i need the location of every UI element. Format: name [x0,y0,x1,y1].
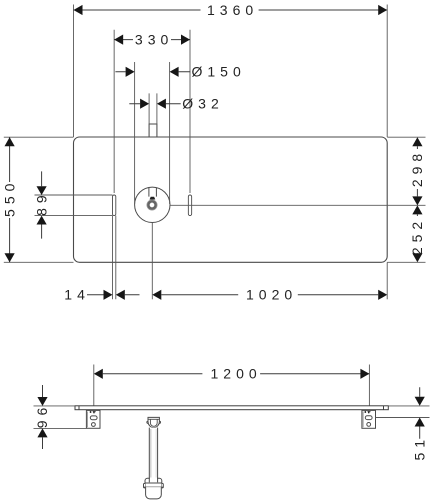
svg-text:Ø150: Ø150 [192,64,246,80]
svg-text:96: 96 [34,403,50,429]
svg-text:Ø32: Ø32 [182,96,223,112]
dimension 252 [409,205,425,262]
dimension 89 [33,171,49,238]
right edge extension down [386,262,388,299]
dimension 51 [411,387,427,460]
extension lines 1360 [74,5,388,138]
svg-text:89: 89 [33,190,49,216]
drain top fitting [147,417,161,427]
slot centre extension right (51) [376,417,430,419]
dimension 1020 [152,287,387,303]
faucet hole circle D150 [135,187,170,222]
slab top extension left / right [34,405,430,407]
dimension 1200 [94,366,370,382]
dimension D32 [129,96,223,112]
trap nut lines and tabs [144,483,164,488]
svg-text:1200: 1200 [211,366,262,382]
dimension 1360 [74,2,388,18]
svg-text:252: 252 [409,217,425,255]
dimension 330 [114,31,190,47]
extension lines right (top edge / bottom edge) [387,137,425,262]
svg-text:298: 298 [409,149,425,187]
extension lines 550 (left) [4,137,74,262]
svg-text:51: 51 [411,435,427,461]
dimension 298 [409,137,425,205]
extension lines D32 [149,93,157,136]
svg-text:14: 14 [64,287,90,303]
dimension 550 [1,137,17,262]
svg-text:1020: 1020 [246,287,297,303]
dimension D150 [115,64,245,80]
svg-text:550: 550 [1,179,17,217]
bracket bottom extension (96) [34,427,87,429]
tap hole ring D32 [148,201,155,208]
extension lines 14 (slot edges down) [113,216,116,300]
dimension 96 [34,385,50,449]
extension lines 89 (slot top/bottom) [35,195,113,216]
trap cup [146,487,162,499]
tap centre extension down [151,223,153,299]
D32 slot lines inside circle [149,188,157,197]
left slot [113,195,116,216]
extension lines D150 tangents [135,62,170,204]
svg-text:1360: 1360 [207,2,258,18]
centerline through hole to right [170,204,425,206]
right bracket [362,410,376,428]
left bracket [86,410,100,428]
tap hole deck tab [149,124,157,137]
extension lines 1200 (bracket centres) [94,365,370,406]
washbasin slab (front view) [75,406,388,410]
right slot [188,195,191,216]
extension lines 330 (slot centres) [114,30,190,193]
trap nut [145,478,162,487]
svg-text:330: 330 [135,31,173,47]
washbasin outline (top view) [74,137,388,262]
small wedge above hole [150,197,156,200]
dimension 14 [64,287,139,303]
drain pipe [149,428,157,483]
